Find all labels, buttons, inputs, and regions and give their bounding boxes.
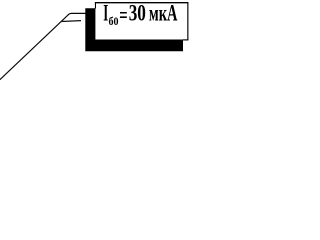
background [0,0,191,80]
label box right border [187,2,189,40]
curve lower plateau branch [61,20,81,23]
label box bottom border corner piece [183,39,188,41]
label box white fill [95,2,188,39]
label box left border [94,2,96,8]
label box top border [95,2,188,4]
svg-text:б0: б0 [109,16,119,28]
shadow bar L-shape [85,8,183,51]
svg-text:мкА: мкА [149,0,178,25]
svg-text:30: 30 [129,0,146,25]
curve main diagonal (steep rise of output characteristic) [0,13,86,80]
svg-text:I: I [103,0,108,25]
svg-text:=: = [119,2,127,27]
